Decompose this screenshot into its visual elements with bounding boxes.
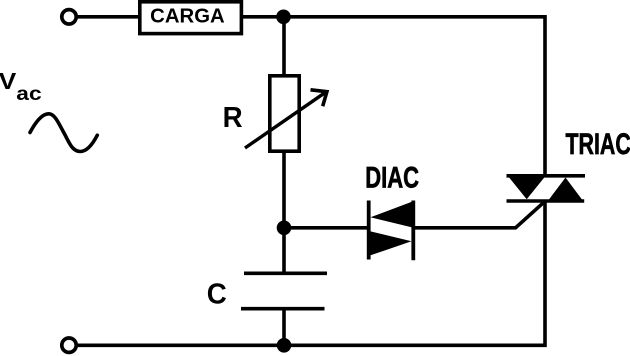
wire: [282, 228, 286, 273]
wire: [282, 151, 286, 228]
wire: [282, 309, 286, 346]
svg-text:C: C: [207, 279, 227, 311]
node C (bottom junction): [277, 338, 292, 353]
svg-text:DIAC: DIAC: [365, 161, 419, 194]
svg-text:R: R: [223, 102, 243, 134]
wire: [282, 17, 286, 76]
terminal T2 (bottom-left input): [62, 338, 76, 352]
svg-text:CARGA: CARGA: [150, 5, 225, 27]
wire: [77, 15, 140, 19]
node A (top junction): [276, 9, 291, 24]
sine wave: [30, 114, 97, 152]
node B (middle junction): [277, 221, 292, 236]
svg-text:V: V: [0, 68, 17, 94]
wire: [284, 17, 546, 176]
svg-text:ac: ac: [16, 83, 41, 105]
svg-text:TRIAC: TRIAC: [566, 128, 630, 161]
wire (gate): [413, 201, 545, 228]
wire (bottom rail): [77, 201, 546, 345]
DIAC D1: [369, 201, 414, 261]
resistor R (variable, box with arrow): [270, 76, 299, 151]
capacitor C1: [241, 273, 327, 308]
wire: [242, 15, 284, 19]
TRIAC Q1: [507, 175, 586, 203]
wire: [284, 226, 369, 230]
load box CARGA: [140, 2, 242, 34]
terminal T1 (top-left input): [62, 10, 76, 24]
